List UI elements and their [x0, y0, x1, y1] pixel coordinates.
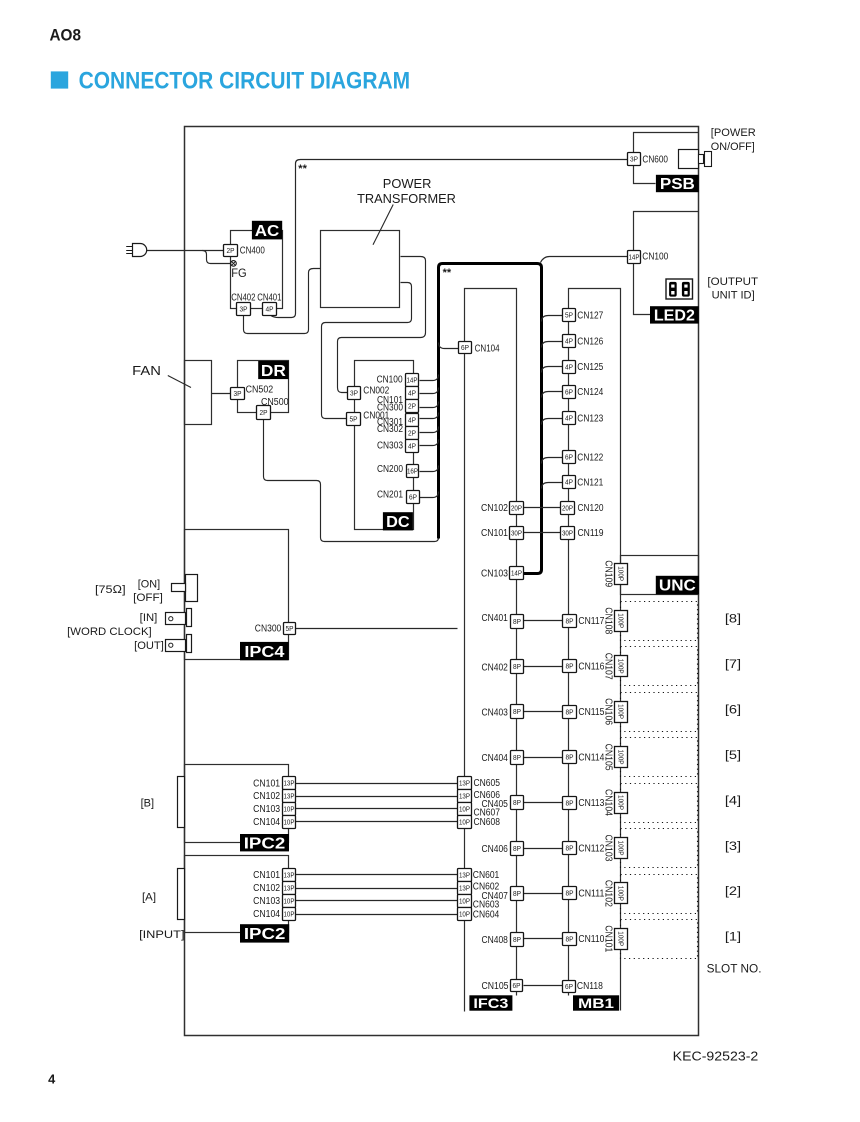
connector IPC2-B CN102 13P: [283, 790, 296, 803]
block label LED2: [650, 306, 699, 324]
svg-text:8P: 8P: [566, 753, 574, 762]
svg-text:TRANSFORMER: TRANSFORMER: [357, 191, 456, 206]
svg-text:CN103: CN103: [603, 835, 614, 862]
slot 6 dotted card box: [621, 693, 698, 732]
svg-text:[75Ω]: [75Ω]: [95, 584, 126, 596]
connector CN605 13P: [458, 777, 472, 790]
svg-text:2P: 2P: [260, 408, 268, 417]
svg-text:UNC: UNC: [659, 578, 696, 595]
svg-text:[OFF]: [OFF]: [133, 592, 163, 604]
svg-text:CN403: CN403: [482, 708, 509, 719]
connector CN401 4P: [263, 303, 277, 316]
connector CN502 3P: [231, 388, 245, 400]
heading bullet square: [51, 71, 68, 88]
connector CN302 2P: [406, 427, 419, 440]
connector CN103 100P: [603, 835, 628, 862]
svg-text:6P: 6P: [565, 453, 573, 462]
svg-text:CN606: CN606: [474, 790, 501, 801]
connector CN403 8P: [511, 705, 524, 719]
svg-text:10P: 10P: [459, 818, 470, 827]
slot 2 dotted card box: [621, 875, 698, 914]
svg-text:4P: 4P: [565, 414, 573, 423]
wire MB1 CN122 to bus: [542, 458, 563, 464]
svg-text:CN406: CN406: [482, 844, 509, 855]
svg-text:100P: 100P: [617, 613, 626, 628]
bus ** DC-MB1 thick bundle: [439, 264, 542, 574]
connector CN101 30P: [510, 527, 524, 540]
svg-text:[2]: [2]: [725, 884, 741, 898]
svg-text:CN116: CN116: [578, 662, 604, 673]
svg-text:CN103: CN103: [253, 804, 280, 815]
svg-text:100P: 100P: [617, 841, 626, 856]
svg-text:6P: 6P: [461, 343, 469, 352]
svg-text:14P: 14P: [511, 569, 522, 578]
svg-text:16P: 16P: [407, 467, 418, 476]
svg-text:10P: 10P: [459, 910, 470, 919]
svg-text:CN401: CN401: [482, 613, 508, 624]
svg-text:CN502: CN502: [246, 385, 274, 396]
svg-text:14P: 14P: [629, 253, 640, 262]
svg-text:[POWER: [POWER: [711, 127, 756, 139]
connector CN115 8P: [563, 706, 577, 719]
svg-text:4P: 4P: [408, 389, 416, 398]
connector CN601 13P: [458, 869, 472, 882]
svg-text:CN101: CN101: [253, 778, 280, 789]
wire MB1 CN124 to bus: [542, 392, 563, 398]
wire CN300 to CN106 word clock: [296, 628, 458, 630]
svg-text:CN604: CN604: [473, 909, 500, 920]
slot 8 dotted card box: [621, 602, 698, 641]
connector CN602 13P: [458, 882, 472, 895]
connector CN122 6P: [563, 451, 576, 464]
svg-text:CN600: CN600: [642, 154, 668, 165]
svg-text:CN104: CN104: [475, 343, 500, 354]
svg-text:CN105: CN105: [482, 981, 509, 992]
svg-text:4P: 4P: [408, 442, 416, 451]
block IPC4 box: [185, 530, 289, 660]
connector CN104 6P: [459, 342, 472, 354]
connector IPC2-B CN101 13P: [283, 777, 296, 790]
svg-text:8P: 8P: [513, 753, 521, 762]
svg-text:CN608: CN608: [474, 817, 501, 828]
wire IPC2 A to IFC3: [296, 914, 458, 916]
connector CN603 10P: [458, 895, 472, 908]
block LED2 outline: [634, 212, 699, 315]
svg-text:20P: 20P: [562, 504, 573, 513]
connector IPC2-B CN103 10P: [283, 803, 296, 816]
svg-text:13P: 13P: [459, 779, 470, 788]
svg-text:CN404: CN404: [482, 753, 509, 764]
svg-text:CN103: CN103: [253, 896, 280, 907]
svg-text:8P: 8P: [513, 844, 521, 853]
wire MB1 CN123 to bus: [542, 419, 563, 425]
connector CN500 2P: [257, 406, 271, 420]
svg-text:DC: DC: [386, 514, 410, 531]
block label IPC4: [240, 642, 289, 661]
svg-text:CN117: CN117: [578, 616, 604, 627]
connector CN400 2P: [224, 245, 238, 257]
svg-text:30P: 30P: [562, 529, 573, 538]
block UNC box: [621, 556, 699, 595]
connector CN608 10P: [458, 816, 472, 829]
connector CN408 8P: [511, 933, 524, 947]
connector CN114 8P: [563, 751, 577, 764]
svg-text:CN104: CN104: [253, 817, 280, 828]
connector CN127 5P: [563, 309, 576, 322]
wire transformer to CN001: [322, 283, 412, 419]
svg-text:CN101: CN101: [481, 528, 508, 539]
svg-text:[1]: [1]: [725, 930, 741, 944]
svg-text:13P: 13P: [459, 792, 470, 801]
svg-text:2P: 2P: [408, 402, 416, 411]
svg-text:10P: 10P: [459, 897, 470, 906]
svg-text:CN602: CN602: [473, 881, 500, 892]
svg-text:CN103: CN103: [481, 569, 508, 580]
wire CN405 to CN113: [524, 802, 563, 804]
svg-text:14P: 14P: [407, 376, 418, 385]
svg-text:8P: 8P: [513, 707, 521, 716]
svg-text:4: 4: [48, 1072, 56, 1087]
transformer pointer line: [373, 205, 393, 245]
svg-text:8P: 8P: [566, 889, 574, 898]
svg-text:**: **: [443, 267, 452, 279]
svg-text:FG: FG: [231, 266, 246, 280]
svg-text:LED2: LED2: [654, 307, 695, 324]
svg-text:CN402: CN402: [482, 662, 508, 673]
svg-text:CN119: CN119: [578, 528, 604, 539]
svg-text:CN401: CN401: [257, 292, 281, 303]
svg-text:8P: 8P: [566, 844, 574, 853]
svg-text:[ON]: [ON]: [138, 578, 160, 590]
svg-text:CN123: CN123: [577, 413, 603, 424]
svg-text:IPC2: IPC2: [244, 835, 286, 852]
block DC box: [355, 361, 414, 530]
block label IPC2 A: [240, 924, 289, 943]
svg-text:IPC4: IPC4: [244, 644, 284, 661]
svg-text:4P: 4P: [408, 416, 416, 425]
wire IPC2 A to IFC3: [296, 874, 458, 876]
wire MB1 CN125 to bus: [542, 367, 563, 373]
svg-text:CN114: CN114: [578, 752, 604, 763]
svg-text:CN201: CN201: [377, 489, 403, 500]
svg-text:CN303: CN303: [377, 440, 403, 451]
connector CN106 100P: [603, 698, 628, 725]
wire DC CN100 to bus: [420, 375, 439, 381]
7-segment unit ID display icon: [666, 279, 693, 299]
svg-text:CN108: CN108: [603, 607, 614, 634]
svg-text:6P: 6P: [565, 982, 573, 991]
svg-text:CN605: CN605: [474, 778, 501, 789]
svg-text:CN107: CN107: [603, 653, 614, 680]
svg-text:4P: 4P: [565, 478, 573, 487]
block IPC2 B box: [185, 765, 289, 843]
wire CN500 to DC bus: [264, 420, 439, 542]
svg-text:5P: 5P: [565, 311, 573, 320]
connector CN124 6P: [563, 386, 576, 399]
svg-text:30P: 30P: [511, 529, 522, 538]
wire MB1 CN126 to bus: [542, 342, 563, 348]
svg-text:CN124: CN124: [577, 387, 603, 398]
wire bus to CN104: [439, 343, 459, 349]
connector CN120 20P: [561, 502, 575, 515]
svg-text:CN127: CN127: [577, 311, 603, 322]
wire DC CN101 to bus: [420, 388, 439, 394]
connector CN100 14P: [628, 251, 641, 264]
connector IPC2-A CN102 13P: [283, 882, 296, 895]
svg-text:CN200: CN200: [377, 464, 403, 475]
block IFC3 outline: [465, 289, 517, 1012]
connector CN112 8P: [563, 842, 577, 855]
AC mains plug icon: [126, 244, 147, 257]
svg-text:13P: 13P: [284, 884, 295, 893]
svg-text:CN126: CN126: [577, 337, 603, 348]
wire CN403 to CN115: [524, 711, 563, 713]
svg-text:100P: 100P: [617, 750, 626, 765]
wire IPC2 B to IFC3: [296, 821, 458, 823]
wire DC CN302 to bus: [420, 427, 439, 433]
connector CN103 14P: [510, 567, 524, 580]
connector CN119 30P: [561, 527, 575, 540]
svg-text:8P: 8P: [513, 662, 521, 671]
connector IPC2-A CN103 10P: [283, 895, 296, 908]
wire CN408 to CN110: [524, 938, 563, 940]
connector CN407 8P: [511, 887, 524, 901]
svg-text:CN101: CN101: [253, 870, 280, 881]
svg-text:CN122: CN122: [577, 453, 603, 464]
svg-text:DR: DR: [261, 363, 286, 380]
connector CN606 13P: [458, 790, 472, 803]
svg-text:3P: 3P: [234, 389, 242, 398]
svg-text:[IN]: [IN]: [140, 612, 158, 624]
svg-text:CN120: CN120: [578, 503, 604, 514]
svg-text:FAN: FAN: [132, 364, 161, 378]
connector CN102 100P: [603, 880, 628, 907]
wire CN406 to CN112: [524, 848, 563, 850]
svg-text:[OUT]: [OUT]: [134, 640, 164, 652]
svg-text:5P: 5P: [350, 415, 358, 424]
svg-text:CN115: CN115: [578, 707, 604, 718]
svg-text:**: **: [298, 163, 307, 175]
bus A wire: [270, 160, 628, 318]
wire CN407 to CN111: [524, 893, 563, 895]
svg-text:CN302: CN302: [377, 424, 403, 435]
connector CN001 5P: [347, 413, 361, 426]
block label IPC2 B: [240, 834, 289, 852]
svg-text:AC: AC: [255, 223, 280, 240]
connector CN405 8P: [511, 796, 524, 810]
wire to FG ground: [203, 251, 231, 264]
wire IPC2 A to IFC3: [296, 888, 458, 890]
slot 4 dotted card box: [621, 784, 698, 823]
svg-text:CN106: CN106: [603, 698, 614, 725]
connector CN117 8P: [563, 615, 577, 628]
slot 3 dotted card box: [621, 829, 698, 868]
connector CN402 8P: [511, 660, 524, 674]
wire AC mains from plug to CN400: [147, 250, 224, 252]
svg-text:[INPUT]: [INPUT]: [139, 929, 184, 941]
main unit border: [185, 127, 699, 1036]
svg-text:[4]: [4]: [725, 793, 741, 807]
svg-text:100P: 100P: [617, 659, 626, 674]
svg-text:6P: 6P: [513, 981, 521, 990]
connector CN402 3P: [237, 303, 251, 316]
wire IPC2 B to IFC3: [296, 796, 458, 798]
svg-text:PSB: PSB: [660, 176, 695, 193]
svg-text:20P: 20P: [511, 504, 522, 513]
power switch icon: [679, 150, 712, 169]
svg-text:6P: 6P: [409, 493, 417, 502]
connector CN300 2P: [406, 400, 419, 413]
connector CN303 4P: [406, 440, 419, 453]
svg-text:CN400: CN400: [240, 245, 265, 256]
svg-text:CN102: CN102: [253, 883, 280, 894]
connector CN107 100P: [603, 653, 628, 680]
svg-text:10P: 10P: [459, 805, 470, 814]
svg-text:CN110: CN110: [578, 934, 604, 945]
svg-text:CN109: CN109: [603, 560, 614, 587]
wire FAN to CN502: [212, 393, 231, 395]
connector CN406 8P: [511, 842, 524, 856]
svg-text:CN125: CN125: [577, 362, 603, 373]
wire CN402 to CN116: [524, 666, 563, 668]
block MB1 outline: [569, 289, 621, 1011]
connector CN123 4P: [563, 412, 576, 425]
svg-text:CN111: CN111: [578, 889, 604, 900]
svg-text:8P: 8P: [566, 799, 574, 808]
connector CN108 100P: [603, 607, 628, 634]
svg-text:CN104: CN104: [603, 789, 614, 816]
connector CN116 8P: [563, 660, 577, 673]
svg-text:4P: 4P: [266, 305, 274, 314]
svg-text:[OUTPUT: [OUTPUT: [707, 276, 758, 288]
block label DC: [383, 512, 413, 531]
wire IPC2 B to IFC3: [296, 808, 458, 810]
svg-text:100P: 100P: [617, 566, 626, 581]
svg-text:10P: 10P: [284, 818, 295, 827]
svg-text:13P: 13P: [284, 792, 295, 801]
connector CN109 100P: [603, 560, 628, 587]
connector IPC2-A CN104 10P: [283, 908, 296, 921]
IPC2 B card edge tab: [178, 777, 185, 828]
connector IPC2-B CN104 10P: [283, 816, 296, 829]
connector CN101 4P: [406, 387, 419, 400]
svg-text:8P: 8P: [566, 617, 574, 626]
connector CN607 10P: [458, 803, 472, 816]
wire DC CN200 to bus: [420, 466, 439, 472]
svg-text:6P: 6P: [565, 388, 573, 397]
svg-text:KEC-92523-2: KEC-92523-2: [673, 1048, 759, 1063]
svg-text:4P: 4P: [565, 363, 573, 372]
connector CN105 100P: [603, 744, 628, 771]
block label PSB: [656, 175, 699, 193]
wire DC CN301 to bus: [420, 413, 439, 419]
connector CN100 14P: [406, 374, 419, 387]
svg-text:13P: 13P: [459, 884, 470, 893]
connector CN125 4P: [563, 361, 576, 374]
svg-text:2P: 2P: [408, 429, 416, 438]
svg-text:[B]: [B]: [141, 797, 155, 809]
wire CN404 to CN114: [524, 757, 563, 759]
svg-text:8P: 8P: [566, 708, 574, 717]
block label AC: [252, 221, 282, 240]
BNC word clock in jack: [166, 609, 192, 627]
svg-text:13P: 13P: [459, 871, 470, 880]
wire transformer to CN002: [338, 257, 426, 393]
svg-text:3P: 3P: [350, 389, 358, 398]
svg-text:8P: 8P: [513, 798, 521, 807]
wire CN401 to CN117: [524, 620, 563, 622]
svg-text:4P: 4P: [565, 337, 573, 346]
svg-text:10P: 10P: [284, 910, 295, 919]
slot 7 dotted card box: [621, 647, 698, 686]
svg-text:[8]: [8]: [725, 612, 741, 626]
wire DC CN201 to bus: [420, 492, 439, 498]
svg-text:CN104: CN104: [253, 909, 280, 920]
svg-text:8P: 8P: [566, 935, 574, 944]
termination switch icon: [172, 575, 198, 602]
wire DC CN300 to bus: [420, 402, 439, 408]
slot 5 dotted card box: [621, 738, 698, 777]
connector CN110 8P: [563, 933, 577, 946]
svg-text:8P: 8P: [513, 889, 521, 898]
connector CN126 4P: [563, 335, 576, 348]
svg-text:IPC2: IPC2: [244, 926, 286, 943]
svg-text:[A]: [A]: [142, 892, 156, 904]
svg-text:AO8: AO8: [50, 25, 82, 44]
svg-text:CN101: CN101: [603, 925, 614, 952]
connector CN200 16P: [407, 465, 419, 478]
svg-text:3P: 3P: [240, 305, 248, 314]
svg-text:[7]: [7]: [725, 657, 741, 671]
wire CN102 to CN120: [524, 507, 561, 509]
svg-text:100P: 100P: [617, 704, 626, 719]
connector CN102 20P: [510, 502, 524, 515]
svg-text:13P: 13P: [284, 779, 295, 788]
connector CN300 5P: [284, 623, 296, 635]
svg-text:10P: 10P: [284, 897, 295, 906]
svg-text:CN402: CN402: [231, 292, 255, 303]
svg-text:MB1: MB1: [578, 996, 615, 1011]
wire IPC2 A to IFC3: [296, 900, 458, 902]
IPC2 A card edge tab: [178, 869, 185, 920]
FAN box: [185, 361, 212, 425]
svg-text:CN113: CN113: [578, 798, 604, 809]
svg-text:8P: 8P: [566, 662, 574, 671]
connector CN104 100P: [603, 789, 628, 816]
wire CN101 to CN119: [524, 532, 561, 534]
svg-text:[6]: [6]: [725, 702, 741, 716]
svg-text:CN102: CN102: [253, 791, 280, 802]
wire DC CN303 to bus: [420, 440, 439, 446]
connector CN002 3P: [348, 387, 361, 400]
svg-text:CN100: CN100: [377, 375, 403, 386]
connector CN121 4P: [563, 476, 576, 489]
BNC word clock out jack: [166, 635, 192, 653]
power transformer box: [321, 231, 400, 308]
connector CN105 6P: [511, 980, 523, 992]
block PSB outline: [634, 133, 699, 184]
wire CN105 to CN118: [524, 985, 563, 987]
svg-text:10P: 10P: [284, 805, 295, 814]
svg-text:CN112: CN112: [578, 843, 604, 854]
svg-text:CN601: CN601: [473, 870, 500, 881]
svg-text:13P: 13P: [284, 871, 295, 880]
svg-text:IFC3: IFC3: [473, 996, 509, 1011]
svg-text:CN105: CN105: [603, 744, 614, 771]
connector CN118 6P: [563, 981, 576, 993]
svg-text:[3]: [3]: [725, 839, 741, 853]
wire IPC2 B to IFC3: [296, 783, 458, 785]
